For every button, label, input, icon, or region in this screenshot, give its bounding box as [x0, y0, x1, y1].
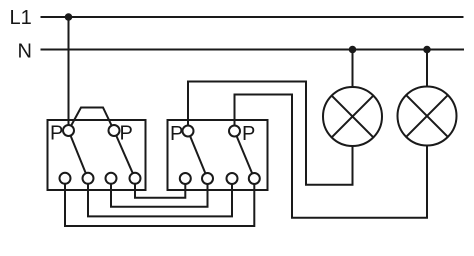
terminal S1 bottom 4 — [130, 173, 141, 184]
terminal S2 bottom 3 — [227, 173, 238, 184]
svg-text:N: N — [18, 41, 32, 63]
junction L1 feed — [65, 13, 73, 21]
wire L1 bus — [41, 16, 464, 18]
terminal S1 P left — [63, 125, 74, 136]
terminal S2 bottom 1 — [180, 173, 191, 184]
terminal S1 P right — [109, 125, 120, 136]
wire N drop to lamp E1 — [352, 50, 354, 93]
wire N bus — [41, 49, 465, 51]
terminal S1 bottom 3 — [106, 173, 117, 184]
svg-text:P: P — [170, 123, 183, 145]
lamp E1 — [323, 87, 382, 146]
wire crossover S1-2 to S2-3 — [88, 178, 232, 216]
wire S1 P-P bridge link — [69, 108, 115, 131]
svg-text:P: P — [242, 123, 255, 145]
switch S1 pole B contact arm — [114, 131, 135, 179]
terminal S2 bottom 4 — [249, 173, 260, 184]
switch S2 pole B contact arm — [235, 131, 255, 179]
junction N to lamp E1 — [349, 46, 357, 54]
wire L1 drop to S1 terminal P — [68, 17, 70, 131]
terminal S1 bottom 1 — [60, 173, 71, 184]
terminal S1 bottom 2 — [83, 173, 94, 184]
wire S2 right P to lamp E2 return — [235, 95, 428, 218]
terminal S2 P right — [229, 126, 240, 137]
wire crossover S1-1 to S2-4 — [65, 178, 254, 226]
terminal S2 bottom 2 — [202, 173, 213, 184]
switch S1 pole A contact arm — [69, 131, 88, 179]
wire crossover S1-3 to S2-2 — [111, 178, 208, 207]
wire N drop to lamp E2 — [426, 50, 428, 92]
svg-text:L1: L1 — [10, 7, 32, 29]
lamp E2 — [398, 87, 457, 146]
junction N to lamp E2 — [423, 46, 431, 54]
svg-text:P: P — [50, 123, 63, 145]
svg-text:P: P — [120, 123, 133, 145]
wire S2 left P to lamp E1 return — [188, 82, 353, 185]
switch S2 body — [168, 120, 268, 190]
wire crossover S1-4 to S2-1 — [135, 178, 185, 197]
terminal S2 P left — [183, 126, 194, 137]
switch S1 body — [48, 120, 146, 190]
switch S2 pole A contact arm — [188, 131, 208, 179]
